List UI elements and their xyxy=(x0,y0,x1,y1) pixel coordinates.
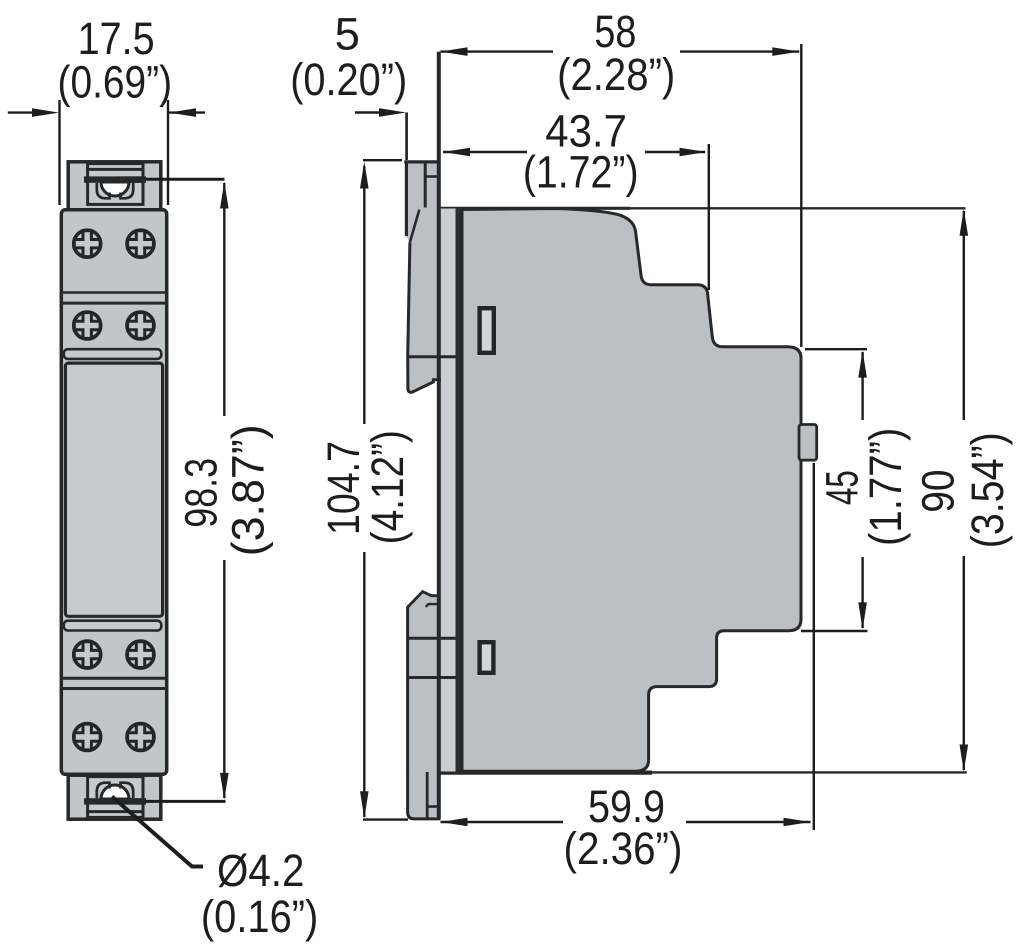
lower block top outline xyxy=(407,592,440,608)
screw 8 xyxy=(127,724,154,751)
dim 58 left arrowhead xyxy=(441,47,468,56)
side body top edge xyxy=(418,207,630,210)
front body xyxy=(61,210,166,775)
dim 17.5 right extension line xyxy=(167,100,169,205)
top clip thick bar xyxy=(84,176,146,182)
top clip upper line xyxy=(86,168,145,171)
top strip xyxy=(64,349,162,359)
bottom clip left foot xyxy=(97,783,110,798)
dim 43.7 left arrowhead xyxy=(443,148,470,157)
upper slot xyxy=(480,308,494,353)
bottom DIN clip box xyxy=(68,775,161,819)
lower block divider 2 xyxy=(407,676,462,679)
lower block left edge xyxy=(406,607,409,772)
svg-text:(4.12”): (4.12”) xyxy=(362,430,413,544)
svg-text:Ø4.2: Ø4.2 xyxy=(217,845,304,896)
tab inner horizontal xyxy=(425,175,437,178)
dim 43.7 line right segment xyxy=(645,151,705,153)
top DIN clip box xyxy=(68,162,161,210)
bottom clip lower line xyxy=(86,810,145,813)
bottom clip right foot xyxy=(121,783,134,798)
notch crease diagonal xyxy=(410,210,419,243)
dim 104.7 bottom leader xyxy=(363,818,408,820)
top clip left foot xyxy=(97,183,110,198)
upper block divider xyxy=(407,355,456,358)
svg-text:(1.72”): (1.72”) xyxy=(523,147,639,198)
dim 98.3 top arrowhead xyxy=(220,182,229,209)
screw 5 xyxy=(74,641,101,668)
dim 45 top arrowhead xyxy=(858,351,867,378)
dim 45 bottom leader xyxy=(801,630,868,632)
dim 43.7 right extension line xyxy=(708,144,710,290)
dim 104.7 line upper segment xyxy=(363,166,365,424)
top clip right foot xyxy=(121,183,134,198)
leader diameter 4.2 xyxy=(112,797,203,867)
left column upper fill (tab + upper block) xyxy=(406,162,440,393)
bottom clip mounting hole (white half disc) xyxy=(101,785,129,799)
dim 98.3 top leader xyxy=(145,178,225,181)
dim 43.7 line left segment xyxy=(443,151,527,153)
dim 58 right extension line xyxy=(800,44,802,347)
screw 4 xyxy=(127,312,154,339)
dim 90 line lower segment xyxy=(963,556,965,770)
dim 58 line left segment xyxy=(441,50,554,52)
bottom clip slot xyxy=(88,777,143,818)
divider lines lower xyxy=(61,677,167,680)
top edge leader to 90 dim xyxy=(630,207,966,209)
dim 58 line right segment xyxy=(680,50,799,52)
svg-text:(3.87”): (3.87”) xyxy=(223,424,274,556)
dim 104.7 top arrowhead xyxy=(360,162,369,189)
dim 104.7 bottom arrowhead xyxy=(360,791,369,818)
foot outline xyxy=(408,770,441,819)
dim 90 bottom arrowhead xyxy=(960,745,969,772)
label panel xyxy=(65,363,162,616)
screws xyxy=(74,230,154,750)
foot inner horizontal xyxy=(427,805,440,808)
dim 98.3 line upper segment xyxy=(223,183,225,416)
bottom clip thick bar xyxy=(84,798,146,804)
lower block divider 1 xyxy=(407,637,456,640)
lower slot xyxy=(480,642,494,673)
dim 45 top leader xyxy=(805,348,867,350)
screw 6 xyxy=(127,641,154,668)
dim 5 extension line xyxy=(405,113,408,161)
screw 2 xyxy=(127,230,154,257)
svg-text:5: 5 xyxy=(335,9,360,60)
main body profile xyxy=(462,209,801,772)
dim 17.5 left arrow line xyxy=(8,111,36,113)
dim 17.5 right arrow line xyxy=(169,111,205,113)
dim 104.7 top leader xyxy=(363,159,402,161)
bottom edge leader to 90 dim xyxy=(652,771,967,773)
svg-text:(2.28”): (2.28”) xyxy=(557,49,675,100)
side body bottom edge xyxy=(408,770,652,774)
top clip mounting hole (white half disc) xyxy=(101,182,129,196)
svg-text:(0.69”): (0.69”) xyxy=(58,57,173,108)
dim 43.7 right arrowhead xyxy=(680,148,707,157)
svg-text:(0.16”): (0.16”) xyxy=(201,891,318,942)
svg-text:(3.54”): (3.54”) xyxy=(962,432,1013,548)
svg-text:(2.36”): (2.36”) xyxy=(564,823,683,874)
dim 17.5 left arrowhead xyxy=(32,108,59,117)
left column lower fill (lower block + foot) xyxy=(408,592,440,819)
top tab outline xyxy=(404,160,437,163)
screw 3 xyxy=(74,312,101,339)
dim 5 arrow line xyxy=(355,111,382,113)
dim 5 arrowhead xyxy=(379,108,406,117)
dim 98.3 bottom arrowhead xyxy=(220,773,229,800)
front thick dark line xyxy=(456,208,463,772)
back leg line (58/59.9 extension) xyxy=(437,52,441,819)
dim 59.9 right arrowhead xyxy=(784,818,811,827)
dim 90 line upper segment xyxy=(963,211,965,420)
dim 17.5 right arrowhead xyxy=(169,108,196,117)
tab inner vertical xyxy=(424,162,427,208)
dim 17.5 left extension line xyxy=(58,100,60,205)
svg-text:98.3: 98.3 xyxy=(175,458,226,528)
screw 1 xyxy=(74,230,101,257)
divider lines upper xyxy=(61,291,167,294)
dim 59.9 left arrowhead xyxy=(441,818,468,827)
svg-text:(1.77”): (1.77”) xyxy=(860,428,911,546)
dim 45 line upper segment xyxy=(861,352,863,420)
svg-text:(0.20”): (0.20”) xyxy=(290,54,407,105)
dim 59.9 line left segment xyxy=(441,821,564,823)
bar over hole right xyxy=(117,176,146,182)
dim 90 top arrowhead xyxy=(960,209,969,236)
screw 7 xyxy=(74,724,101,751)
dim 45 bottom arrowhead xyxy=(858,602,867,629)
svg-text:90: 90 xyxy=(913,469,964,512)
dim 104.7 line lower segment xyxy=(363,552,365,817)
lower block notch line xyxy=(426,604,440,607)
dim 58 right arrowhead xyxy=(772,47,799,56)
DIN channel light strip xyxy=(441,209,456,772)
top clip slot xyxy=(88,164,143,205)
dim 98.3 line lower segment xyxy=(223,560,225,798)
bottom strip xyxy=(64,621,162,631)
latch bump on right face xyxy=(799,425,817,461)
dim 45 line lower segment xyxy=(861,557,863,628)
dim 59.9 line right segment xyxy=(686,821,811,823)
dim 98.3 bottom leader xyxy=(145,800,226,803)
dim 59.9 right extension line xyxy=(813,463,815,830)
foot inner vertical xyxy=(426,772,429,818)
bar over hole right bottom xyxy=(117,798,146,804)
upper block left edge xyxy=(408,242,441,392)
